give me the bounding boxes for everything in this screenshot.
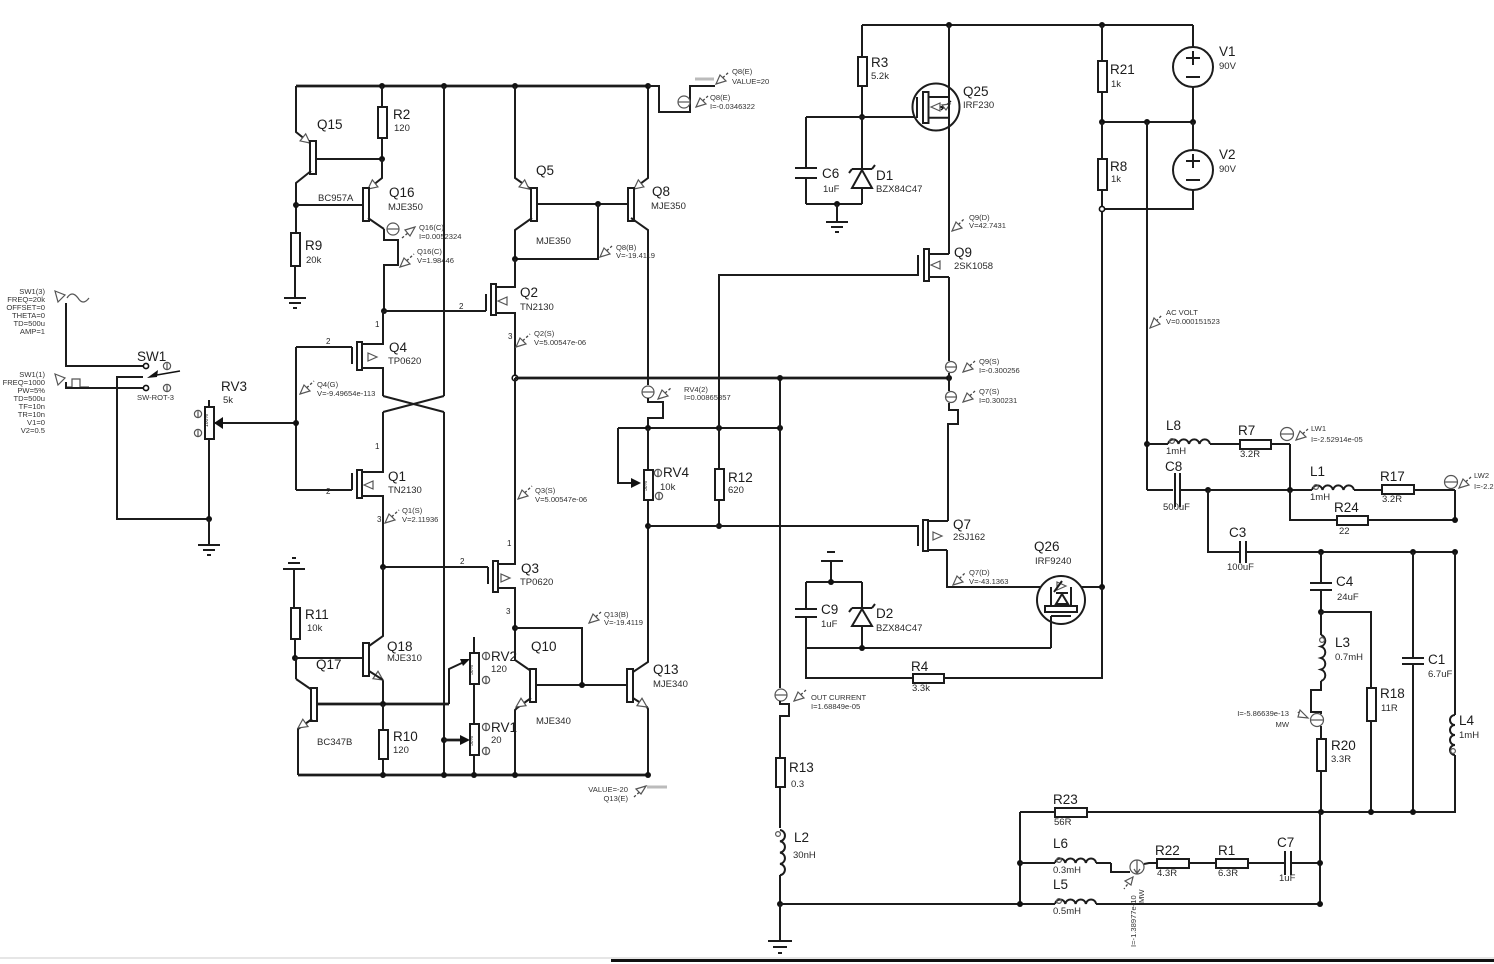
node rail/Q13 emitter [645, 772, 651, 778]
node top rail / R21 [1099, 22, 1105, 28]
resistor R8 [1098, 122, 1127, 209]
mosfet Q7 [918, 517, 985, 551]
node Q7 drain row / right rail [1099, 584, 1105, 590]
svg-text:Q26: Q26 [1034, 539, 1060, 554]
probe current MW [1237, 709, 1323, 729]
node left column / L6 row [1017, 860, 1023, 866]
node rail/RV1 [471, 772, 477, 778]
transistor Q10 [515, 628, 627, 775]
svg-text:R20: R20 [1331, 738, 1356, 753]
node rail/Q5 emitter [512, 83, 518, 89]
wire crossover column lower [443, 412, 445, 776]
wire jog to Q7 source [948, 403, 958, 521]
svg-text:AC VOLT: AC VOLT [1166, 308, 1198, 317]
node output row / C1 [1410, 809, 1416, 815]
capacitor C4 [1310, 552, 1359, 612]
node R8/V2 junction [1099, 206, 1104, 211]
node C9/D2 ground tie [828, 579, 834, 585]
svg-text:MJE340: MJE340 [536, 716, 571, 727]
node C7 / column [1317, 860, 1323, 866]
capacitor C8 [1147, 459, 1208, 513]
node bias row / R12 [716, 425, 722, 431]
wire crossover column upper [443, 86, 445, 396]
node output row / R18 [1368, 809, 1374, 815]
svg-text:1: 1 [375, 442, 380, 451]
svg-text:C3: C3 [1229, 525, 1246, 540]
svg-text:I=-5.86639e-13: I=-5.86639e-13 [1237, 709, 1289, 718]
transistor Q15 [296, 86, 382, 233]
probe voltage Q3(S) [518, 486, 587, 504]
probe voltage Q8(B) [600, 243, 655, 260]
svg-text:R2: R2 [393, 107, 410, 122]
node rail / Q8 emitter / generator step [645, 83, 651, 89]
svg-text:RV4: RV4 [663, 465, 690, 480]
node RV1 wiper tap [441, 737, 447, 743]
wire sine source to SW1 [66, 303, 143, 366]
svg-text:2: 2 [326, 337, 331, 346]
node ground tie C6/D1 [834, 201, 840, 207]
svg-text:3.2R: 3.2R [1240, 449, 1260, 460]
node Q1 source / Q3 gate / Q18 collector [380, 564, 386, 570]
ground output [768, 904, 792, 953]
svg-text:Q13: Q13 [653, 662, 679, 677]
node top rail / Q25 drain [946, 22, 952, 28]
svg-text:MJE310: MJE310 [387, 653, 422, 664]
svg-text:90V: 90V [1219, 61, 1237, 72]
generator sine source SW1(3) [6, 287, 89, 336]
svg-text:56R: 56R [1054, 817, 1072, 828]
svg-text:L5: L5 [1053, 877, 1068, 892]
probe voltage Q7(D) [953, 568, 1008, 586]
svg-text:30nH: 30nH [793, 850, 816, 861]
svg-text:V2=0.5: V2=0.5 [21, 426, 45, 435]
svg-text:C6: C6 [822, 166, 839, 181]
generator pulse source SW1(1) [3, 370, 89, 435]
wire L3 jog [1311, 681, 1321, 714]
svg-text:1k: 1k [1111, 174, 1121, 185]
svg-text:L6: L6 [1053, 836, 1068, 851]
svg-text:MJE350: MJE350 [388, 202, 423, 213]
diode D2 BZX84C47 [849, 582, 922, 648]
wire C8 row to L1 [1208, 489, 1312, 491]
svg-text:V=-43.1363: V=-43.1363 [969, 577, 1008, 586]
resistor R4 [911, 587, 1102, 694]
transistor Q17 [296, 657, 449, 775]
svg-text:Q1: Q1 [388, 469, 406, 484]
probe voltage Q4(G) [300, 380, 375, 398]
wire C6 D1 bottom tie [806, 203, 862, 205]
resistor R17 [1380, 469, 1455, 505]
svg-text:V=-19.4119: V=-19.4119 [616, 251, 655, 260]
svg-text:1uF: 1uF [823, 184, 840, 195]
transistor Q1 [296, 412, 422, 567]
svg-text:C8: C8 [1165, 459, 1182, 474]
svg-text:V=0.000151523: V=0.000151523 [1166, 317, 1220, 326]
svg-text:R9: R9 [305, 238, 322, 253]
node L8 branch / L1 row [1287, 487, 1293, 493]
transistor Q3 [383, 378, 553, 628]
svg-text:20k: 20k [306, 255, 322, 266]
svg-text:120: 120 [393, 745, 409, 756]
node VAS Q16C/Q4 drain/Q2 gate [381, 308, 387, 314]
svg-text:2: 2 [460, 557, 465, 566]
wire output node row [1020, 811, 1455, 812]
svg-text:20: 20 [491, 735, 502, 746]
svg-text:Q7: Q7 [953, 517, 971, 532]
svg-text:R24: R24 [1334, 500, 1359, 515]
resistor R11 [291, 607, 329, 658]
svg-text:C1: C1 [1428, 652, 1445, 667]
svg-text:BC347B: BC347B [317, 737, 352, 748]
svg-text:3: 3 [506, 607, 511, 616]
resistor R9 [291, 233, 322, 298]
svg-text:Q4(G): Q4(G) [317, 380, 339, 389]
inductor L6 [1020, 836, 1111, 876]
resistor R20 [1317, 726, 1356, 812]
wire probe segment [948, 373, 950, 391]
probe current Q9(S) [946, 357, 1020, 375]
inductor L4 [1450, 552, 1479, 812]
svg-text:90V: 90V [1219, 164, 1237, 175]
svg-text:V=1.98446: V=1.98446 [417, 256, 454, 265]
probe current LW1 [1281, 424, 1363, 444]
node rail/crossover column [441, 772, 447, 778]
svg-text:L4: L4 [1459, 713, 1475, 728]
wire RV1 wiper arrow [444, 735, 470, 745]
probe current Q8(E) [678, 93, 755, 111]
svg-text:TN2130: TN2130 [388, 485, 422, 496]
node RV3 bottom / ground [206, 516, 212, 522]
svg-text:1k: 1k [1111, 79, 1121, 90]
node Q18 emitter / R10 / Q17 base [380, 701, 386, 707]
wire output column [779, 378, 781, 688]
svg-text:I=-0.300256: I=-0.300256 [979, 366, 1020, 375]
svg-text:24uF: 24uF [1337, 592, 1359, 603]
transistor Q2 [384, 259, 554, 378]
inductor L3 [1320, 612, 1364, 681]
border bottom hairline [0, 957, 1494, 959]
svg-text:I=0.00865857: I=0.00865857 [684, 393, 731, 402]
svg-text:Q10: Q10 [531, 639, 557, 654]
node L2 bottom / speaker return row [777, 901, 783, 907]
node RV4 bottom / gate row [645, 523, 651, 529]
inductor L8 [1147, 418, 1240, 457]
svg-text:Q2(S): Q2(S) [534, 329, 555, 338]
svg-text:MJE350: MJE350 [651, 201, 686, 212]
svg-text:SW-ROT-3: SW-ROT-3 [137, 393, 174, 402]
svg-text:3.2R: 3.2R [1382, 494, 1402, 505]
svg-text:Q8(E): Q8(E) [732, 67, 753, 76]
resistor R2 [378, 86, 410, 159]
svg-text:Q16(C): Q16(C) [419, 223, 444, 232]
transistor Q13 [627, 526, 688, 775]
wire speaker return row [780, 903, 1320, 905]
svg-text:TN2130: TN2130 [520, 302, 554, 313]
wire Q7 gate row [648, 526, 918, 544]
svg-text:L8: L8 [1166, 418, 1181, 433]
node Q5/Q8 base tie [595, 201, 601, 207]
wire left branch column [1019, 812, 1021, 904]
svg-text:V=-9.49654e-113: V=-9.49654e-113 [317, 389, 375, 398]
svg-text:V=42.7431: V=42.7431 [969, 221, 1006, 230]
svg-text:100uF: 100uF [1227, 562, 1254, 573]
node R2 bottom / Q15 base [379, 156, 385, 162]
svg-text:Q18: Q18 [387, 639, 413, 654]
svg-text:Q16: Q16 [389, 185, 415, 200]
wire output jog below probe [780, 701, 789, 758]
svg-text:Q25: Q25 [963, 84, 989, 99]
svg-text:100%: 100% [204, 414, 210, 427]
capacitor C9 [795, 582, 838, 648]
svg-text:5.2k: 5.2k [871, 71, 889, 82]
transistor Q4 [296, 311, 421, 396]
wire Q9 source to mid row [948, 277, 950, 361]
wire SW1 pole loop to ground [117, 377, 209, 519]
wire output rail upper [948, 25, 950, 254]
wire top supply rail [862, 24, 1193, 26]
wire right main vertical rail [1101, 212, 1103, 587]
svg-text:1mH: 1mH [1166, 446, 1186, 457]
svg-text:BZX84C47: BZX84C47 [876, 184, 922, 195]
wire bias row [618, 427, 780, 429]
svg-text:RV1: RV1 [491, 720, 517, 735]
potentiometer RV3 [194, 379, 296, 519]
node V1/V2 [1190, 119, 1196, 125]
svg-text:IRF230: IRF230 [963, 100, 994, 111]
svg-text:D1: D1 [876, 168, 893, 183]
inductor L5 [1053, 877, 1096, 917]
wire RV4 wiper feed [618, 428, 641, 488]
svg-text:R13: R13 [789, 760, 814, 775]
svg-text:Q1(S): Q1(S) [402, 506, 423, 515]
svg-text:6.7uF: 6.7uF [1428, 669, 1452, 680]
wire AC VOLT vertical [1146, 122, 1148, 444]
svg-text:R21: R21 [1110, 62, 1135, 77]
wire Q7 drain row [947, 550, 1102, 587]
potentiometer RV1 [469, 720, 517, 776]
diode D1 BZX84C47 [849, 117, 922, 204]
node bias row / RV4 [645, 425, 651, 431]
svg-text:V=-19.4119: V=-19.4119 [604, 618, 643, 627]
svg-text:22: 22 [1339, 526, 1350, 537]
mosfet Q9 [918, 245, 993, 281]
wire pulse source to SW1 [66, 382, 143, 388]
node R21/R8 [1099, 119, 1105, 125]
wire mid supply row [1102, 121, 1193, 123]
svg-text:1uF: 1uF [1279, 873, 1296, 884]
svg-text:BZX84C47: BZX84C47 [876, 623, 922, 634]
svg-text:Q3(S): Q3(S) [535, 486, 556, 495]
svg-text:120: 120 [491, 664, 507, 675]
capacitor C7 [1277, 835, 1320, 884]
node base tie Q10/Q13 [579, 682, 585, 688]
resistor R1 [1213, 843, 1284, 879]
svg-text:R18: R18 [1380, 686, 1405, 701]
svg-text:6.3R: 6.3R [1218, 868, 1238, 879]
voltage source V1 [1173, 25, 1237, 122]
voltage source V2 [1102, 122, 1237, 209]
probe voltage Q13(B) [589, 610, 643, 627]
svg-text:2SJ162: 2SJ162 [953, 532, 985, 543]
svg-text:0.7mH: 0.7mH [1335, 652, 1363, 663]
resistor R21 [1098, 25, 1135, 122]
wire R7 to C8 row [1289, 444, 1291, 490]
svg-text:MW: MW [1137, 889, 1146, 903]
svg-text:R23: R23 [1053, 792, 1078, 807]
inductor L2 [776, 830, 816, 904]
node Q15 collector / Q16 base [293, 202, 299, 208]
svg-text:L2: L2 [794, 830, 809, 845]
probe current Q16(C) [387, 223, 461, 241]
svg-text:Q8: Q8 [652, 184, 670, 199]
svg-text:1mH: 1mH [1310, 492, 1330, 503]
ground C6/D1 [826, 204, 848, 232]
wire gate loop left [295, 347, 297, 490]
svg-text:0.3mH: 0.3mH [1053, 865, 1081, 876]
node output column / mid row [777, 375, 783, 381]
capacitor C6 [795, 117, 840, 204]
svg-text:120: 120 [394, 123, 410, 134]
svg-text:Q7(D): Q7(D) [969, 568, 990, 577]
node Q5 collector / Q2 drain [512, 256, 518, 262]
svg-text:V2: V2 [1219, 147, 1236, 162]
node Q3 source / Q10 collector [512, 625, 518, 631]
node D2 / bottom row [859, 645, 865, 651]
node R3 bottom / Q25 gate row [859, 114, 865, 120]
svg-text:R7: R7 [1238, 423, 1255, 438]
node return row / column [1317, 901, 1323, 907]
svg-text:R3: R3 [871, 55, 888, 70]
svg-text:R11: R11 [305, 607, 329, 622]
node output row / R20 [1318, 809, 1324, 815]
wire R18 branch [1321, 612, 1371, 688]
wire mid bias row [515, 377, 949, 380]
node mid row / output rail [946, 375, 952, 381]
node bias row / output column [777, 425, 783, 431]
svg-text:2: 2 [459, 302, 464, 311]
svg-text:11R: 11R [1381, 703, 1398, 714]
potentiometer RV4 [643, 428, 690, 526]
node left column / return row [1017, 901, 1023, 907]
svg-text:5k: 5k [223, 395, 233, 406]
resistor R12 [715, 428, 753, 526]
svg-text:1mH: 1mH [1459, 730, 1479, 741]
node Q2 source tap [512, 375, 518, 381]
node C3 row / right column [1452, 549, 1458, 555]
svg-text:R12: R12 [728, 470, 753, 485]
resistor R24 [1334, 500, 1455, 537]
svg-text:I=-0.0346322: I=-0.0346322 [710, 102, 755, 111]
svg-text:D2: D2 [876, 606, 893, 621]
svg-text:LW2: LW2 [1474, 471, 1489, 480]
svg-text:Q2: Q2 [520, 285, 538, 300]
generator Q13(E) VALUE=-20 [588, 785, 667, 803]
wire Q16 collector jog [384, 229, 398, 311]
probe current MW2 jog [1111, 860, 1157, 947]
svg-text:TP0620: TP0620 [520, 577, 553, 588]
svg-text:Q16(C): Q16(C) [417, 247, 442, 256]
resistor R7 [1238, 423, 1290, 460]
svg-text:R1: R1 [1218, 843, 1235, 858]
svg-text:I=0.300231: I=0.300231 [979, 396, 1017, 405]
node C8 / C3 branch [1205, 487, 1211, 493]
node RV3 wiper / gate loop [293, 420, 299, 426]
node R24 / right column [1452, 517, 1458, 523]
node rail/R10 [380, 772, 386, 778]
svg-text:MJE350: MJE350 [536, 236, 571, 247]
wire C9/D2 bottom row to Q26 [806, 647, 1051, 649]
probe AC VOLT [1150, 308, 1220, 328]
mosfet Q26 [1034, 539, 1085, 648]
svg-text:V=2.11936: V=2.11936 [402, 515, 438, 524]
svg-text:1uF: 1uF [821, 619, 838, 630]
resistor R22 [1155, 843, 1213, 879]
ground above R11 [283, 558, 305, 608]
ground input [198, 519, 220, 555]
svg-text:I=-2.52914e-05: I=-2.52914e-05 [1311, 435, 1363, 444]
wire C9/D2 top tie [806, 581, 862, 583]
svg-text:I=0.0052324: I=0.0052324 [419, 232, 461, 241]
svg-text:R10: R10 [393, 729, 418, 744]
wire Q8 collector jog to bias node [648, 398, 663, 428]
svg-text:500uF: 500uF [1163, 502, 1190, 513]
node C3 row / C1 branch [1410, 549, 1416, 555]
resistor R10 [379, 704, 418, 775]
svg-text:Q15: Q15 [317, 117, 343, 132]
svg-text:L3: L3 [1335, 635, 1350, 650]
svg-text:2SK1058: 2SK1058 [954, 261, 993, 272]
probe current RV4(2) [642, 385, 731, 402]
wire bottom -20 rail [298, 774, 648, 777]
svg-text:1: 1 [375, 320, 380, 329]
svg-text:50%: 50% [469, 735, 475, 746]
svg-text:V=5.00547e-06: V=5.00547e-06 [534, 338, 586, 347]
probe current OUT CURRENT [775, 689, 866, 711]
wire C3 branch [1208, 490, 1239, 552]
wire AC VOLT corner [1146, 444, 1148, 490]
node AC VOLT tap [1144, 119, 1150, 125]
wire R17 corner to R24 row [1454, 490, 1456, 520]
svg-text:MW: MW [1276, 720, 1290, 729]
wire Q17 base riser to RV2 wiper [449, 659, 470, 704]
node L8 row tap [1144, 441, 1150, 447]
svg-text:R17: R17 [1380, 469, 1405, 484]
node R12 bottom / gate row [716, 523, 722, 529]
probe voltage Q2(S) [508, 329, 586, 347]
svg-text:V1: V1 [1219, 44, 1236, 59]
svg-text:C7: C7 [1277, 835, 1294, 850]
svg-text:BC957A: BC957A [318, 193, 354, 204]
svg-text:1: 1 [507, 539, 512, 548]
transistor Q16 [296, 159, 423, 229]
probe voltage Q1(S) [377, 506, 438, 524]
svg-text:Q8(E): Q8(E) [710, 93, 731, 102]
svg-text:2: 2 [326, 487, 331, 496]
svg-text:3: 3 [508, 332, 513, 341]
transistor Q5 [515, 86, 628, 259]
svg-text:R22: R22 [1155, 843, 1180, 858]
potentiometer RV2 [469, 637, 517, 724]
svg-text:RV3: RV3 [221, 379, 247, 394]
wire base to Q5 collector [515, 204, 598, 259]
svg-text:Q17: Q17 [316, 657, 342, 672]
transistor Q18 [295, 567, 422, 704]
svg-text:Q3: Q3 [521, 561, 539, 576]
wire crossover X [383, 396, 444, 412]
svg-text:50%: 50% [643, 480, 649, 491]
wire R24 row [1290, 490, 1337, 520]
svg-text:4.3R: 4.3R [1157, 868, 1177, 879]
